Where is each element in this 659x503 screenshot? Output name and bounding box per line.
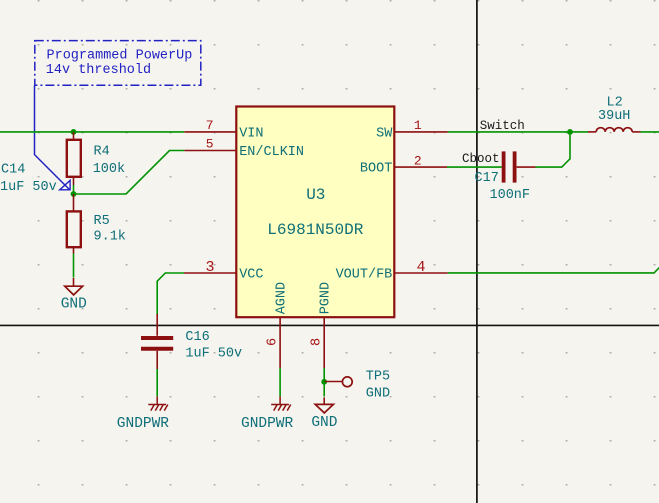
svg-text:GND: GND: [61, 297, 87, 313]
capacitor C16: [141, 314, 173, 369]
note text "Programmed PowerUp / 14v threshold": [46, 49, 193, 79]
svg-text:2: 2: [414, 153, 422, 168]
svg-text:Cboot: Cboot: [462, 152, 500, 166]
TP5 labels: [366, 369, 390, 401]
svg-text:C16: C16: [185, 330, 209, 345]
svg-text:5: 5: [206, 136, 214, 151]
svg-text:U3: U3: [306, 186, 325, 204]
wire L2 to right edge: [641, 131, 659, 133]
svg-text:VCC: VCC: [239, 268, 263, 283]
pin 8 PGND: [323, 317, 325, 368]
test point TP5: [324, 377, 352, 387]
svg-text:AGND: AGND: [275, 282, 290, 314]
svg-text:PGND: PGND: [319, 282, 334, 314]
svg-text:14v threshold: 14v threshold: [46, 63, 151, 78]
svg-text:L2: L2: [607, 95, 623, 110]
ground GND (PGND): [315, 397, 333, 413]
svg-text:1uF 50v: 1uF 50v: [185, 347, 242, 362]
note leader arrow: [35, 86, 70, 190]
svg-text:7: 7: [206, 118, 214, 133]
wire PGND junction to GND: [323, 382, 325, 397]
svg-text:R5: R5: [94, 214, 110, 229]
svg-text:C14: C14: [1, 163, 25, 178]
svg-text:9.1k: 9.1k: [94, 229, 126, 244]
L2 labels: [598, 95, 630, 124]
svg-text:SW: SW: [376, 126, 393, 141]
svg-text:100nF: 100nF: [490, 188, 531, 203]
svg-text:Switch: Switch: [480, 119, 525, 133]
junction SW / L2 / Cboot: [567, 129, 573, 135]
wire SW net: [448, 131, 588, 133]
C17 labels: [475, 171, 531, 203]
page border line horizontal: [0, 324, 659, 326]
junction PGND / TP5: [321, 379, 327, 385]
svg-text:GNDPWR: GNDPWR: [117, 416, 170, 432]
wire PGND to junction: [323, 368, 325, 382]
wire VIN net (main input rail): [0, 131, 184, 133]
power GNDPWR (under AGND): [271, 396, 291, 410]
svg-text:1: 1: [414, 118, 422, 133]
svg-text:GND: GND: [366, 387, 390, 402]
inductor L2: [588, 128, 641, 132]
ground GND (divider): [65, 278, 83, 295]
wire junction down to Cboot cap: [536, 132, 571, 167]
svg-text:R4: R4: [94, 145, 110, 160]
wire R5 to GND: [73, 254, 75, 278]
svg-text:100k: 100k: [93, 162, 125, 177]
pin 6 AGND: [279, 317, 281, 368]
svg-text:3: 3: [205, 259, 214, 276]
svg-text:6: 6: [265, 338, 280, 346]
resistor R4: [67, 132, 81, 185]
R5 labels: [94, 214, 126, 244]
wire VCC to C16: [157, 273, 184, 314]
svg-text:EN/CLKIN: EN/CLKIN: [239, 145, 304, 160]
svg-text:8: 8: [309, 338, 324, 346]
svg-text:GND: GND: [311, 415, 337, 431]
page border line vertical: [476, 0, 478, 503]
pin 3 VCC: [184, 272, 236, 274]
svg-text:TP5: TP5: [366, 369, 390, 384]
wire divider node to pin 5: [74, 151, 185, 195]
op-amp / IC U3 body: [236, 107, 394, 318]
pin 1 SW: [394, 131, 448, 133]
wire BOOT net: [447, 166, 502, 168]
svg-text:1uF 50v: 1uF 50v: [0, 180, 57, 195]
junction R4 / R5: [73, 185, 75, 194]
pin 5 EN/CLKIN: [184, 150, 236, 152]
resistor R5: [67, 194, 81, 254]
pin 4 VOUT/FB: [394, 272, 448, 274]
svg-text:L6981N50DR: L6981N50DR: [267, 221, 363, 239]
svg-text:VIN: VIN: [239, 126, 263, 141]
R4 labels: [93, 145, 125, 177]
svg-text:4: 4: [416, 259, 425, 276]
C16 labels: [185, 330, 242, 362]
wire VOUT/FB net: [448, 267, 659, 273]
svg-text:Programmed PowerUp: Programmed PowerUp: [47, 49, 193, 64]
svg-text:C17: C17: [475, 171, 499, 186]
wire AGND to GNDPWR: [279, 368, 281, 396]
pin 7 VIN: [184, 131, 236, 133]
capacitor C17: [504, 151, 536, 182]
svg-text:VOUT/FB: VOUT/FB: [336, 268, 393, 283]
power GNDPWR (under C16): [148, 396, 168, 410]
pin 2 BOOT: [394, 166, 447, 168]
junction VIN / R4: [71, 129, 77, 135]
svg-text:39uH: 39uH: [598, 109, 630, 124]
wire C16 to GNDPWR: [156, 369, 158, 396]
capacitor C14 label (body off-screen): [0, 163, 57, 196]
note box (dashed): [35, 41, 201, 86]
svg-text:GNDPWR: GNDPWR: [241, 416, 294, 432]
svg-text:BOOT: BOOT: [360, 161, 392, 176]
